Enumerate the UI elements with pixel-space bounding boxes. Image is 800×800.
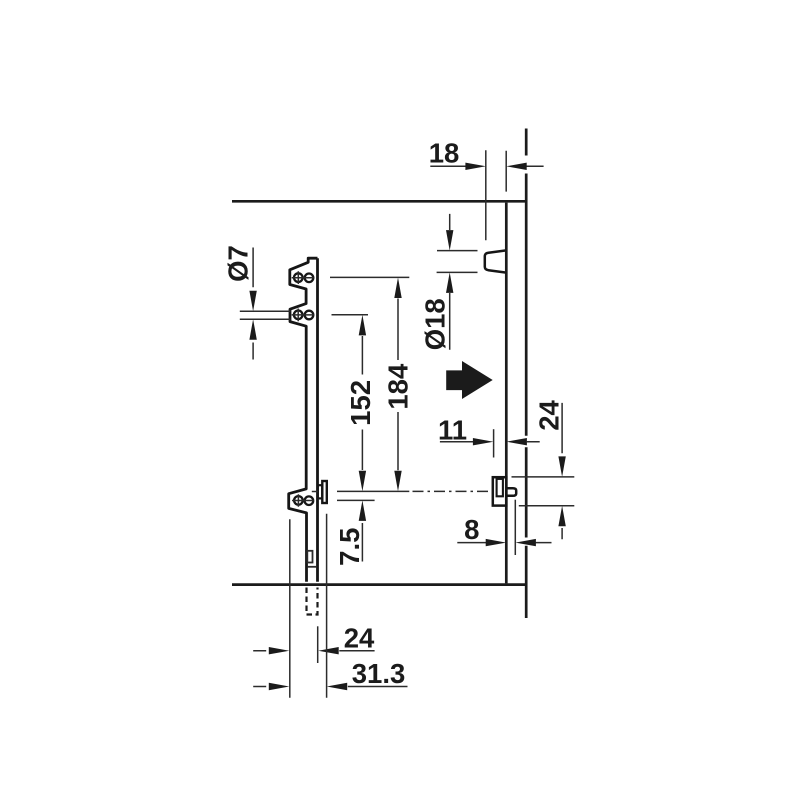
dimension O18 extension lines — [437, 251, 478, 273]
center axis line of pin (solid then dash-dot) — [337, 490, 409, 492]
extension line from hole pair 2 center — [332, 314, 369, 316]
screw hole pair 2 right circle — [305, 311, 314, 320]
extension line from hole pair 1 center — [330, 276, 409, 278]
dimension 18 extension lines — [486, 150, 506, 240]
dimension 7.5 line and arrow — [361, 523, 363, 562]
rail pin body — [318, 485, 322, 498]
rail inner clip box — [307, 551, 312, 563]
dimension 152 line and arrows — [361, 336, 363, 470]
rail pin flange — [322, 481, 327, 503]
dimension 24 bottom lines and arrows — [253, 650, 374, 652]
dimension 31.3 lines and arrows — [253, 686, 407, 688]
screw hole pair 1 left circle — [294, 273, 303, 282]
screw hole pair 3 right circle — [305, 496, 314, 505]
svg-text:7.5: 7.5 — [334, 528, 365, 566]
hole pair 2 center lines — [292, 309, 314, 322]
latch tab into panel — [506, 488, 516, 496]
screw hole pair 2 left circle — [294, 311, 303, 320]
cabinet rear wall line (with gaps for dim arrows) — [525, 129, 528, 619]
svg-text:31.3: 31.3 — [352, 658, 406, 689]
dimension O7 extension (tangent) lines — [240, 311, 291, 319]
svg-text:18: 18 — [429, 138, 460, 169]
dimension 24 right line and arrows — [561, 403, 563, 539]
hole pair 3 center lines — [292, 494, 314, 507]
direction arrow (solid) — [446, 361, 493, 399]
hole pair 1 center lines — [292, 271, 314, 284]
dimension O7 line and arrows — [252, 248, 254, 360]
svg-text:24: 24 — [344, 623, 375, 654]
dimension 11 extension line — [493, 429, 495, 457]
dimension 18 lines and arrows — [430, 165, 543, 167]
dimension 24 right extension lines — [512, 477, 575, 506]
dimension O18 line and arrows — [449, 214, 451, 350]
cabinet top panel line — [232, 200, 527, 203]
cabinet bottom panel line — [232, 583, 527, 586]
dimension 11 lines and arrows — [440, 441, 540, 443]
dimension 24 bottom short extension line — [317, 626, 319, 663]
dimension 8 extension line — [514, 500, 516, 555]
screw hole pair 3 left circle — [294, 496, 303, 505]
svg-text:Ø18: Ø18 — [420, 298, 451, 350]
svg-text:184: 184 — [382, 363, 413, 410]
pin axis stub line — [312, 491, 318, 493]
svg-text:8: 8 — [464, 514, 479, 545]
screw hole pair 1 right circle — [305, 274, 314, 283]
extension line from hole pair 3 center — [337, 499, 375, 501]
svg-text:24: 24 — [534, 400, 565, 431]
rail notch line — [307, 566, 316, 568]
dowel plug in back panel (top) — [485, 251, 506, 273]
svg-text:152: 152 — [345, 380, 376, 426]
svg-text:Ø7: Ø7 — [222, 245, 253, 282]
dimension 184 line and arrows — [397, 299, 399, 471]
latch body on back panel — [493, 477, 507, 505]
dimension 8 lines and arrows — [457, 542, 551, 544]
back panel front face line — [505, 203, 508, 584]
mounting rail outline — [289, 258, 318, 582]
rail hidden continuation (dashed) below bottom panel — [307, 588, 318, 615]
latch inner slot — [497, 479, 503, 496]
right extension line (pin flange face) — [326, 514, 328, 698]
left extension line (rail front face) — [289, 519, 291, 698]
